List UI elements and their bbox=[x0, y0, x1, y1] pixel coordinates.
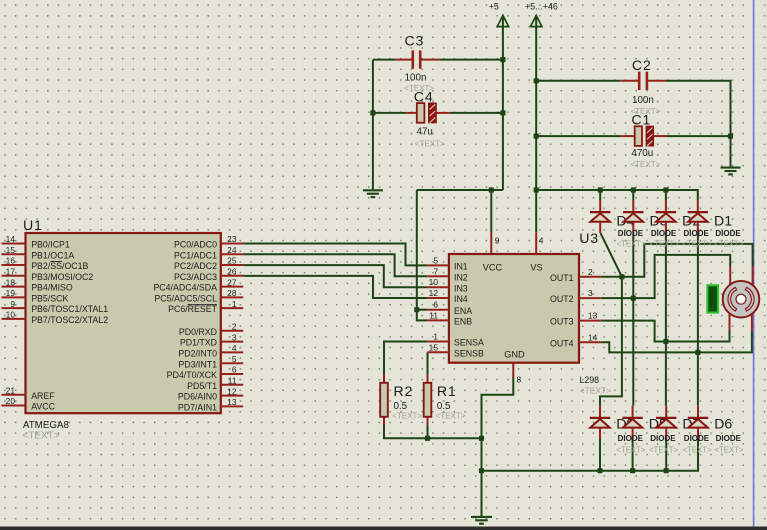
svg-text:DIODE: DIODE bbox=[715, 229, 741, 238]
svg-text:<TEXT>: <TEXT> bbox=[714, 445, 743, 454]
svg-text:23: 23 bbox=[227, 234, 237, 244]
svg-text:PC3/ADC3: PC3/ADC3 bbox=[174, 272, 217, 282]
svg-text:2: 2 bbox=[588, 267, 593, 277]
svg-text:20: 20 bbox=[6, 396, 16, 406]
svg-text:GND: GND bbox=[504, 350, 525, 360]
svg-text:IN2: IN2 bbox=[454, 272, 468, 282]
svg-text:8: 8 bbox=[517, 375, 522, 385]
svg-text:DIODE: DIODE bbox=[716, 434, 742, 443]
svg-text:19: 19 bbox=[6, 288, 16, 298]
svg-text:PD5/T1: PD5/T1 bbox=[187, 381, 217, 391]
svg-text:21: 21 bbox=[6, 385, 16, 395]
svg-text:<TEXT>: <TEXT> bbox=[682, 239, 711, 248]
svg-text:D6: D6 bbox=[714, 417, 732, 433]
svg-text:<TEXT>: <TEXT> bbox=[650, 239, 679, 248]
svg-text:26: 26 bbox=[227, 267, 237, 277]
svg-text:16: 16 bbox=[6, 256, 16, 266]
svg-text:9: 9 bbox=[10, 299, 15, 309]
svg-text:R1: R1 bbox=[437, 384, 457, 400]
svg-text:PD1/TXD: PD1/TXD bbox=[180, 338, 217, 348]
svg-text:10: 10 bbox=[6, 310, 16, 320]
svg-text:ATMEGA8: ATMEGA8 bbox=[23, 420, 70, 431]
svg-text:13: 13 bbox=[227, 397, 237, 407]
svg-text:<TEXT>: <TEXT> bbox=[616, 445, 645, 454]
svg-text:14: 14 bbox=[588, 332, 598, 342]
svg-text:0.5: 0.5 bbox=[437, 401, 451, 412]
svg-text:100n: 100n bbox=[405, 73, 427, 84]
svg-text:14: 14 bbox=[6, 234, 16, 244]
svg-text:<TEXT>: <TEXT> bbox=[714, 239, 743, 248]
svg-text:PD3/INT1: PD3/INT1 bbox=[178, 359, 217, 369]
svg-text:9: 9 bbox=[495, 236, 500, 246]
svg-text:PB7/TOSC2/XTAL2: PB7/TOSC2/XTAL2 bbox=[31, 315, 108, 325]
svg-text:<TEXT>: <TEXT> bbox=[436, 412, 466, 421]
svg-text:10: 10 bbox=[429, 277, 439, 287]
svg-text:3: 3 bbox=[232, 332, 237, 342]
svg-text:<TEXT>: <TEXT> bbox=[392, 412, 422, 421]
svg-text:U3: U3 bbox=[579, 231, 599, 247]
svg-text:+5...+46: +5...+46 bbox=[525, 2, 558, 12]
svg-text:PC1/ADC1: PC1/ADC1 bbox=[174, 250, 217, 260]
svg-text:PC2/ADC2: PC2/ADC2 bbox=[174, 261, 217, 271]
svg-text:ENA: ENA bbox=[454, 306, 472, 316]
svg-text:AVCC: AVCC bbox=[31, 402, 55, 412]
svg-text:DIODE: DIODE bbox=[684, 229, 710, 238]
svg-text:OUT3: OUT3 bbox=[550, 317, 574, 327]
svg-text:<TEXT>: <TEXT> bbox=[683, 445, 712, 454]
svg-text:OUT1: OUT1 bbox=[550, 273, 574, 283]
svg-text:5: 5 bbox=[433, 255, 438, 265]
svg-text:470u: 470u bbox=[631, 148, 653, 159]
svg-text:6: 6 bbox=[433, 300, 438, 310]
svg-text:PB2/SS/OC1B: PB2/SS/OC1B bbox=[31, 261, 88, 271]
svg-text:PB4/MISO: PB4/MISO bbox=[31, 283, 73, 293]
svg-text:PD2/INT0: PD2/INT0 bbox=[178, 349, 217, 359]
svg-text:C3: C3 bbox=[405, 33, 425, 49]
svg-text:IN4: IN4 bbox=[454, 294, 468, 304]
svg-text:<TEXT>: <TEXT> bbox=[631, 160, 661, 169]
svg-text:100n: 100n bbox=[632, 95, 654, 106]
svg-text:11: 11 bbox=[429, 310, 438, 320]
svg-text:DIODE: DIODE bbox=[651, 229, 677, 238]
svg-text:IN3: IN3 bbox=[454, 283, 468, 293]
svg-text:D1: D1 bbox=[714, 214, 732, 230]
svg-text:L298: L298 bbox=[580, 375, 600, 385]
svg-text:12: 12 bbox=[227, 386, 237, 396]
svg-text:PB5/SCK: PB5/SCK bbox=[31, 293, 68, 303]
svg-text:IN1: IN1 bbox=[454, 262, 468, 272]
svg-text:ENB: ENB bbox=[454, 317, 472, 327]
svg-text:28: 28 bbox=[227, 288, 237, 298]
svg-text:PD4/T0/XCK: PD4/T0/XCK bbox=[167, 370, 217, 380]
svg-text:15: 15 bbox=[429, 342, 439, 352]
svg-text:PB1/OC1A: PB1/OC1A bbox=[31, 250, 74, 260]
svg-text:DIODE: DIODE bbox=[650, 434, 676, 443]
svg-text:7: 7 bbox=[433, 266, 438, 276]
svg-text:AREF: AREF bbox=[31, 391, 55, 401]
svg-text:PC5/ADC5/SCL: PC5/ADC5/SCL bbox=[154, 293, 217, 303]
svg-text:PD7/AIN1: PD7/AIN1 bbox=[178, 403, 217, 413]
svg-text:OUT2: OUT2 bbox=[550, 294, 574, 304]
svg-text:4: 4 bbox=[539, 236, 544, 246]
svg-text:47u: 47u bbox=[417, 127, 433, 138]
svg-text:15: 15 bbox=[6, 245, 16, 255]
svg-text:<TEXT>: <TEXT> bbox=[617, 239, 646, 248]
svg-text:PC0/ADC0: PC0/ADC0 bbox=[174, 240, 217, 250]
svg-text:18: 18 bbox=[6, 277, 16, 287]
svg-text:PB3/MOSI/OC2: PB3/MOSI/OC2 bbox=[31, 272, 93, 282]
svg-text:C2: C2 bbox=[632, 58, 652, 74]
svg-text:1: 1 bbox=[232, 299, 237, 309]
svg-text:<TEXT>: <TEXT> bbox=[649, 445, 678, 454]
svg-text:R2: R2 bbox=[394, 384, 414, 400]
svg-text:12: 12 bbox=[429, 288, 439, 298]
svg-text:VCC: VCC bbox=[483, 263, 503, 273]
svg-text:11: 11 bbox=[228, 376, 237, 386]
svg-text:U1: U1 bbox=[23, 218, 43, 234]
svg-text:+5: +5 bbox=[489, 2, 499, 12]
svg-text:6: 6 bbox=[232, 365, 237, 375]
svg-text:OUT4: OUT4 bbox=[550, 338, 574, 348]
svg-text:0.5: 0.5 bbox=[394, 401, 408, 412]
svg-text:PD6/AIN0: PD6/AIN0 bbox=[178, 392, 217, 402]
svg-text:DIODE: DIODE bbox=[618, 434, 644, 443]
svg-text:PB6/TOSC1/XTAL1: PB6/TOSC1/XTAL1 bbox=[31, 304, 108, 314]
svg-text:17: 17 bbox=[6, 267, 16, 277]
svg-text:<TEXT>: <TEXT> bbox=[22, 431, 59, 442]
svg-text:27: 27 bbox=[227, 277, 237, 287]
svg-text:24: 24 bbox=[227, 245, 237, 255]
svg-text:+4800: +4800 bbox=[709, 292, 715, 306]
svg-text:PC4/ADC4/SDA: PC4/ADC4/SDA bbox=[153, 283, 217, 293]
svg-text:PC6/RESET: PC6/RESET bbox=[168, 304, 218, 314]
svg-text:SENSA: SENSA bbox=[454, 338, 484, 348]
svg-text:4: 4 bbox=[232, 343, 237, 353]
svg-text:25: 25 bbox=[227, 256, 237, 266]
svg-text:C4: C4 bbox=[414, 90, 434, 106]
svg-text:PD0/RXD: PD0/RXD bbox=[179, 327, 217, 337]
svg-text:DIODE: DIODE bbox=[684, 434, 710, 443]
svg-text:PB0/ICP1: PB0/ICP1 bbox=[31, 240, 70, 250]
svg-text:C1: C1 bbox=[631, 112, 651, 128]
svg-text:<TEXT>: <TEXT> bbox=[415, 140, 445, 149]
svg-text:1: 1 bbox=[433, 332, 438, 342]
svg-text:<TEXT>: <TEXT> bbox=[580, 386, 612, 396]
svg-text:VS: VS bbox=[530, 263, 542, 273]
svg-text:SENSB: SENSB bbox=[454, 348, 484, 358]
svg-text:DIODE: DIODE bbox=[618, 229, 644, 238]
svg-text:5: 5 bbox=[232, 354, 237, 364]
svg-text:2: 2 bbox=[232, 322, 237, 332]
svg-text:13: 13 bbox=[588, 311, 598, 321]
svg-text:3: 3 bbox=[588, 288, 593, 298]
